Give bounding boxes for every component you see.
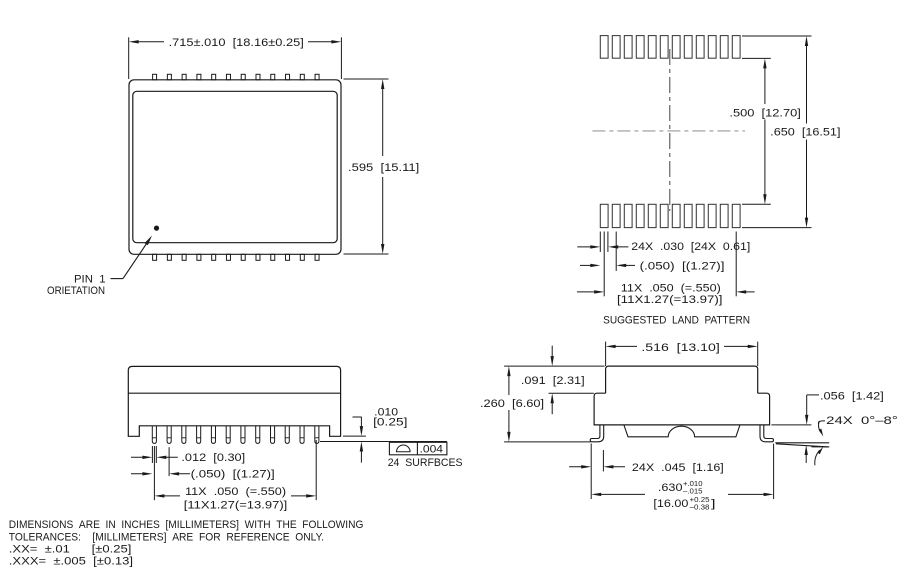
dim 11X .050 side arrows (154, 494, 164, 497)
svg-text:.004: .004 (420, 444, 444, 456)
seating plane line (320, 441, 447, 443)
svg-text:PIN 1: PIN 1 (74, 273, 106, 285)
end view right lead (760, 425, 774, 442)
dim .012 arrows (131, 456, 148, 458)
svg-text:]: ] (711, 498, 716, 510)
svg-text:TOLERANCES: [MILLIMETERS]: TOLERANCES: [MILLIMETERS] ARE FOR REFERE… (9, 531, 324, 543)
seating line right (775, 442, 829, 444)
svg-text:[11X1.27(=13.97)]: [11X1.27(=13.97)] (184, 500, 287, 512)
ext line cap top (504, 365, 604, 367)
dim .010 lower arrow (360, 450, 362, 463)
svg-text:.500 [12.70]: .500 [12.70] (729, 107, 801, 119)
svg-text:ORIETATION: ORIETATION (47, 285, 105, 297)
svg-text:–0.38: –0.38 (690, 502, 710, 511)
svg-text:11X .050 (=.550): 11X .050 (=.550) (185, 486, 286, 498)
dim .650 line (806, 41, 808, 124)
tick pad1 center (603, 232, 605, 297)
dim .595 bottom extension line (344, 253, 389, 255)
pin 1 leader line (111, 278, 124, 280)
angle line lower (812, 446, 830, 448)
dim (.050) side arrows (131, 473, 148, 475)
dim .260 line (507, 366, 510, 376)
tick pad1 left edge (599, 232, 601, 252)
ext line pads bottom (742, 227, 812, 229)
svg-text:.516 [13.10]: .516 [13.10] (641, 342, 719, 354)
svg-text:11X .050 (=.550): 11X .050 (=.550) (621, 282, 721, 294)
tick pin2 center (168, 447, 170, 476)
top view upper pin row (12 pins) (153, 74, 157, 80)
ext line lead tip left long (590, 444, 592, 500)
svg-text:(.050) [(1.27)]: (.050) [(1.27)] (640, 261, 725, 273)
ext line pads top (742, 35, 812, 37)
dim .010 upper arrow (353, 416, 362, 418)
tick pin1 right edge (155, 446, 157, 463)
tick pin12 center (315, 440, 317, 500)
svg-text:[16.00: [16.00 (653, 498, 688, 510)
side view pin row (12 leads) (152, 426, 156, 444)
svg-text:[11X1.27(=13.97)]: [11X1.27(=13.97)] (617, 294, 723, 306)
dim .500 line (764, 63, 766, 104)
ext line lead tip right long (773, 444, 775, 499)
svg-text:.XX= ±.01 [±0.25]: .XX= ±.01 [±0.25] (9, 544, 132, 556)
end view left lead (590, 425, 604, 442)
dim (.050) arrows (580, 264, 596, 266)
land pattern lower pad row (12 pads) (600, 204, 608, 227)
dim .715 left extension line (128, 37, 130, 79)
dim .091 arrows (551, 346, 553, 358)
dim .056 lower arrow (805, 453, 807, 463)
dim 11X .050 arrows (577, 291, 600, 293)
dim .630 line (591, 493, 601, 496)
angle arc lower (815, 450, 820, 465)
ext line upper pads bottom (742, 57, 771, 59)
svg-text:[0.25]: [0.25] (373, 417, 407, 429)
svg-text:.XXX= ±.005 [±0.13]: .XXX= ±.005 [±0.13] (9, 556, 133, 568)
angled lead line (776, 444, 829, 447)
tick pad1 right edge (607, 232, 609, 252)
end view bottom recess (624, 425, 740, 437)
dim 24X .030 arrows (577, 246, 596, 248)
dim .595 dimension line (382, 84, 384, 157)
dim .516 line (606, 345, 616, 348)
angle text leader hook (818, 421, 825, 424)
body bottom ext line right (771, 424, 811, 426)
pin 1 orientation dot (154, 226, 159, 231)
svg-text:DIMENSIONS ARE IN INCHES [: DIMENSIONS ARE IN INCHES [MILLIMETERS] W… (9, 519, 364, 531)
tick pad2 center (615, 232, 617, 271)
svg-text:.630: .630 (658, 482, 683, 494)
dim .056 leader (807, 394, 819, 396)
tick pin1 center long (153, 446, 155, 500)
package top view outer body (129, 80, 341, 255)
svg-text:.595 [15.11]: .595 [15.11] (348, 162, 419, 174)
svg-text:24 SURFBCES: 24 SURFBCES (388, 457, 463, 469)
ext line step (549, 392, 594, 394)
dim .715 dimension line (133, 41, 164, 43)
side view lower body outline (128, 393, 340, 436)
dim .516 right ext (757, 342, 759, 366)
dim .715 right extension line (340, 37, 342, 79)
svg-text:24X 0°–8°: 24X 0°–8° (826, 415, 898, 427)
ext line lower pads top (742, 203, 771, 205)
ext line lead inner (602, 450, 604, 471)
dim .595 top extension line (344, 78, 389, 80)
svg-text:.012 [0.30]: .012 [0.30] (181, 452, 245, 464)
dim .516 left ext (605, 342, 607, 366)
angle arc upper (819, 421, 822, 433)
vertical centerline (669, 49, 671, 211)
svg-text:(.050) [(1.27)]: (.050) [(1.27)] (191, 469, 275, 481)
svg-text:.056 [1.42]: .056 [1.42] (820, 391, 884, 403)
top view lower pin row (12 pins) (153, 254, 157, 260)
svg-text:.091 [2.31]: .091 [2.31] (521, 375, 585, 387)
svg-text:.715±.010 [18.16±0.25]: .715±.010 [18.16±0.25] (169, 37, 304, 49)
tick pad12 center (735, 232, 737, 297)
land pattern upper pad row (12 pads) (600, 36, 608, 59)
seating plane ext line (504, 441, 590, 443)
tick pin1 left edge (151, 446, 153, 463)
feature control frame box (389, 442, 447, 455)
svg-text:SUGGESTED LAND PATTERN: SUGGESTED LAND PATTERN (603, 315, 750, 327)
svg-text:24X .030 [24X 0.61]: 24X .030 [24X 0.61] (631, 241, 750, 253)
horizontal centerline (592, 130, 745, 132)
side view top cap (128, 366, 340, 393)
end view top cap (606, 366, 758, 393)
flatness symbol (397, 445, 411, 452)
end view body outline (594, 393, 770, 425)
svg-text:.650 [16.51]: .650 [16.51] (770, 127, 840, 139)
foot bottom extension line (343, 435, 366, 437)
dim .045 arrows (569, 466, 587, 468)
svg-text:24X .045 [1.16]: 24X .045 [1.16] (632, 462, 724, 474)
svg-text:.260 [6.60]: .260 [6.60] (480, 398, 544, 410)
package top view inner body (133, 91, 337, 242)
